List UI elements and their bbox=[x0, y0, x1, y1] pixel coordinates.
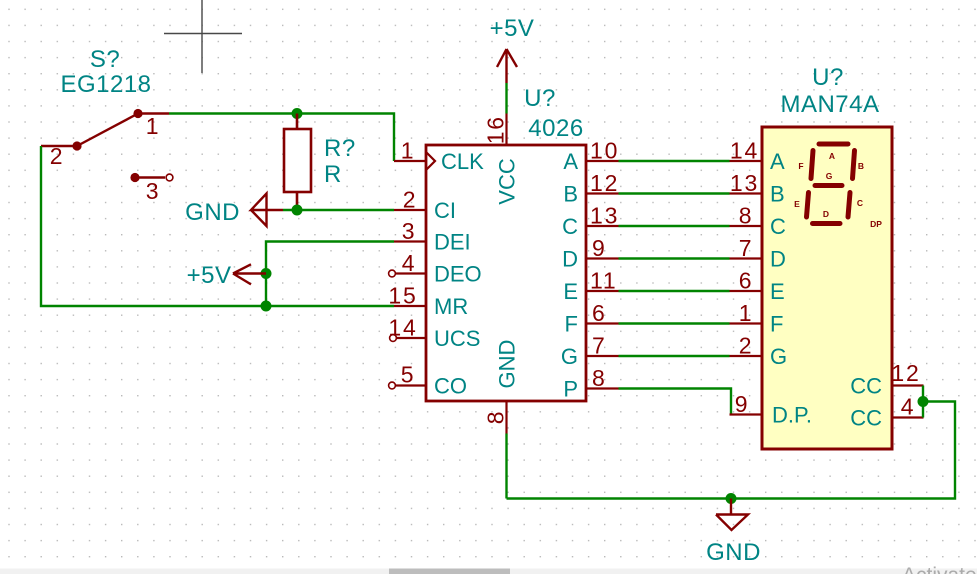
svg-text:F: F bbox=[770, 312, 783, 337]
4026 left pin names bbox=[434, 149, 484, 399]
svg-text:GND: GND bbox=[706, 539, 761, 566]
svg-text:Activate W: Activate W bbox=[902, 564, 977, 574]
svg-text:CO: CO bbox=[434, 374, 467, 399]
svg-text:13: 13 bbox=[730, 170, 759, 196]
svg-text:E: E bbox=[794, 199, 800, 209]
wire switch pin1 to resistor top and CLK bbox=[169, 114, 394, 162]
svg-text:13: 13 bbox=[590, 203, 619, 229]
wire CI net bbox=[283, 209, 394, 211]
4026 right pin numbers bbox=[590, 138, 619, 392]
svg-text:7: 7 bbox=[592, 333, 607, 359]
svg-text:5: 5 bbox=[401, 362, 416, 388]
svg-text:14: 14 bbox=[388, 315, 417, 341]
svg-text:C: C bbox=[562, 214, 578, 239]
svg-text:F: F bbox=[565, 312, 578, 337]
unconnected marker UCS pin 14 bbox=[390, 335, 397, 342]
cursor crosshair bbox=[164, 0, 242, 73]
node junction +5V tap bbox=[261, 268, 272, 279]
svg-text:F: F bbox=[798, 161, 803, 171]
scrollbar track bbox=[0, 569, 977, 575]
node junction MR net bbox=[261, 301, 272, 312]
svg-text:10: 10 bbox=[590, 138, 619, 164]
svg-text:6: 6 bbox=[739, 268, 754, 294]
wires 4026 outputs A-G to display bbox=[619, 161, 730, 356]
svg-text:CC: CC bbox=[850, 374, 882, 399]
svg-text:DEI: DEI bbox=[434, 230, 471, 255]
resistor R? bbox=[284, 114, 311, 211]
svg-text:4: 4 bbox=[402, 250, 417, 276]
svg-text:GND: GND bbox=[495, 340, 520, 389]
wire P output to D.P. bbox=[619, 389, 732, 415]
unconnected marker CO pin 5 bbox=[389, 382, 396, 389]
power symbol GND bottom bbox=[716, 499, 748, 531]
svg-text:11: 11 bbox=[590, 268, 617, 294]
svg-text:D.P.: D.P. bbox=[772, 403, 812, 428]
svg-text:16: 16 bbox=[483, 115, 509, 144]
svg-text:CI: CI bbox=[434, 198, 456, 223]
svg-text:GND: GND bbox=[185, 199, 240, 226]
4026 left pin numbers bbox=[388, 138, 417, 388]
svg-text:7: 7 bbox=[739, 235, 754, 261]
svg-text:3: 3 bbox=[402, 218, 417, 244]
svg-text:G: G bbox=[826, 171, 833, 181]
svg-text:E: E bbox=[563, 279, 578, 304]
svg-text:U?: U? bbox=[812, 64, 844, 91]
wire 4026 GND pin to rail bbox=[505, 434, 507, 499]
svg-text:MR: MR bbox=[434, 294, 468, 319]
svg-text:S?: S? bbox=[90, 46, 120, 73]
svg-text:12: 12 bbox=[891, 360, 920, 386]
svg-text:4026: 4026 bbox=[528, 115, 583, 142]
seven segment digit segments bbox=[807, 144, 855, 224]
svg-text:D: D bbox=[770, 247, 786, 272]
display pin names bbox=[770, 149, 882, 431]
display left pins bbox=[730, 161, 763, 415]
svg-text:A: A bbox=[563, 149, 578, 174]
svg-text:B: B bbox=[563, 182, 578, 207]
node junction resistor bottom bbox=[292, 205, 303, 216]
wire +5V to VCC pin16 bbox=[505, 83, 507, 114]
svg-text:14: 14 bbox=[730, 138, 759, 164]
node junction ground rail bbox=[726, 493, 737, 504]
svg-text:EG1218: EG1218 bbox=[60, 71, 151, 98]
display pin numbers bbox=[730, 138, 921, 420]
svg-text:DEO: DEO bbox=[434, 262, 482, 287]
svg-text:R: R bbox=[324, 161, 342, 188]
svg-text:B: B bbox=[770, 182, 785, 207]
svg-text:E: E bbox=[770, 279, 785, 304]
svg-text:+5V: +5V bbox=[187, 262, 232, 289]
wire switch pin2 down to MR net bbox=[41, 146, 394, 306]
svg-text:6: 6 bbox=[592, 300, 607, 326]
4026 bottom pin 8 bbox=[505, 401, 507, 434]
unconnected marker DEO pin 4 bbox=[389, 270, 396, 277]
svg-text:B: B bbox=[858, 161, 864, 171]
svg-text:3: 3 bbox=[146, 178, 161, 204]
svg-text:A: A bbox=[829, 151, 835, 161]
svg-text:VCC: VCC bbox=[495, 158, 520, 205]
svg-text:8: 8 bbox=[739, 203, 754, 229]
4026 top pin 16 bbox=[505, 114, 507, 146]
svg-text:+5V: +5V bbox=[490, 15, 535, 42]
svg-text:A: A bbox=[770, 149, 785, 174]
svg-text:8: 8 bbox=[592, 365, 607, 391]
svg-text:1: 1 bbox=[146, 113, 161, 139]
svg-text:4: 4 bbox=[901, 394, 916, 420]
svg-text:U?: U? bbox=[524, 85, 556, 112]
power symbol +5V left bbox=[233, 264, 266, 284]
display U? MAN74A body bbox=[762, 127, 892, 449]
svg-text:CC: CC bbox=[850, 406, 882, 431]
svg-text:P: P bbox=[563, 377, 578, 402]
svg-text:9: 9 bbox=[592, 235, 607, 261]
wire CC to ground rail bbox=[507, 402, 956, 499]
svg-text:G: G bbox=[770, 344, 787, 369]
svg-text:C: C bbox=[770, 214, 786, 239]
switch S1 bbox=[41, 109, 169, 182]
svg-text:G: G bbox=[561, 344, 578, 369]
4026 right pins bbox=[586, 161, 619, 389]
svg-text:DP: DP bbox=[870, 219, 882, 229]
svg-text:15: 15 bbox=[388, 283, 417, 309]
svg-text:CLK: CLK bbox=[441, 149, 484, 174]
4026 left pins bbox=[394, 152, 435, 386]
wire CC pins bridge bbox=[922, 386, 924, 418]
svg-text:1: 1 bbox=[401, 138, 416, 164]
op IC U1 4026 body bbox=[426, 145, 586, 401]
power symbol +5V top bbox=[497, 49, 517, 83]
scrollbar thumb bbox=[389, 569, 510, 575]
svg-text:1: 1 bbox=[739, 300, 754, 326]
svg-text:D: D bbox=[823, 209, 829, 219]
svg-text:2: 2 bbox=[739, 333, 754, 359]
svg-text:UCS: UCS bbox=[434, 326, 480, 351]
wire DEI net bbox=[266, 242, 394, 307]
unconnected marker on switch pin 3 bbox=[166, 174, 173, 181]
svg-text:2: 2 bbox=[403, 187, 418, 213]
node junction CC bridge bbox=[918, 396, 929, 407]
svg-text:R?: R? bbox=[324, 135, 356, 162]
svg-text:9: 9 bbox=[735, 391, 750, 417]
svg-text:C: C bbox=[857, 198, 863, 208]
4026 right pin names bbox=[561, 149, 578, 402]
svg-text:D: D bbox=[562, 247, 578, 272]
node junction at resistor top bbox=[292, 108, 303, 119]
power symbol GND left bbox=[251, 194, 283, 227]
seven segment letter labels bbox=[794, 151, 882, 229]
svg-text:2: 2 bbox=[50, 143, 65, 169]
svg-text:8: 8 bbox=[483, 410, 509, 425]
svg-text:MAN74A: MAN74A bbox=[780, 91, 879, 118]
display right pins CC bbox=[892, 386, 924, 418]
svg-text:12: 12 bbox=[590, 170, 619, 196]
